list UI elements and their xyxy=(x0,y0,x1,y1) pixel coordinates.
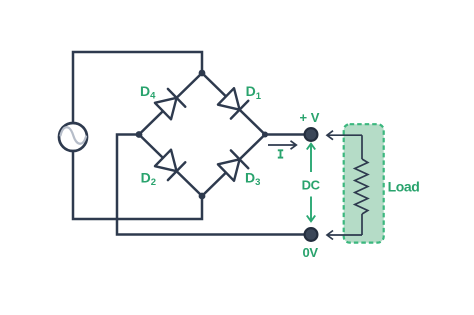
svg-text:0V: 0V xyxy=(303,245,319,260)
load box (dashed) xyxy=(344,124,384,242)
label D2 xyxy=(141,170,156,189)
wire: bridge right vertex to +V terminal xyxy=(265,133,308,136)
diode D3 xyxy=(217,150,248,181)
wire: bridge edge bottom-right xyxy=(202,135,265,197)
resistor R load xyxy=(355,159,368,214)
wire: bridge left vertex to 0V terminal xyxy=(117,135,308,235)
diode D2 xyxy=(154,149,185,180)
label D1 xyxy=(246,83,262,102)
terminal +V xyxy=(305,128,318,141)
current arrow I xyxy=(268,141,296,149)
label 0V xyxy=(303,245,319,260)
wire: bridge edge top-right xyxy=(202,73,265,135)
load wire top with arrow into +V xyxy=(327,131,362,159)
ac source V1 xyxy=(59,123,87,151)
wire: bridge edge left-bottom xyxy=(139,135,202,197)
terminal 0V xyxy=(305,228,318,241)
label I xyxy=(278,150,283,157)
label DC xyxy=(302,178,321,193)
label D4 xyxy=(140,83,156,102)
diode D1 xyxy=(217,87,248,118)
svg-text:D4: D4 xyxy=(140,83,156,102)
svg-text:D3: D3 xyxy=(245,170,260,189)
svg-text:Load: Load xyxy=(388,178,420,194)
dc arrow up xyxy=(307,144,315,172)
wire: bridge edge left-top xyxy=(139,73,202,135)
junction node left vertex xyxy=(136,131,143,138)
label +V xyxy=(300,110,320,125)
svg-text:DC: DC xyxy=(302,178,321,193)
dc arrow down xyxy=(307,197,315,222)
label Load xyxy=(388,178,420,194)
svg-text:D2: D2 xyxy=(141,170,156,189)
svg-text:D1: D1 xyxy=(246,83,262,102)
wire: AC source top to bridge top vertex xyxy=(73,52,202,122)
svg-text:+ V: + V xyxy=(300,110,320,125)
load wire bottom with arrow into 0V xyxy=(327,214,362,240)
wire: AC source bottom to bridge bottom vertex xyxy=(73,152,202,219)
junction node bottom vertex xyxy=(199,193,206,200)
junction node right vertex xyxy=(262,132,268,138)
junction node top vertex xyxy=(199,70,206,77)
diode D4 xyxy=(154,89,185,120)
label D3 xyxy=(245,170,260,189)
